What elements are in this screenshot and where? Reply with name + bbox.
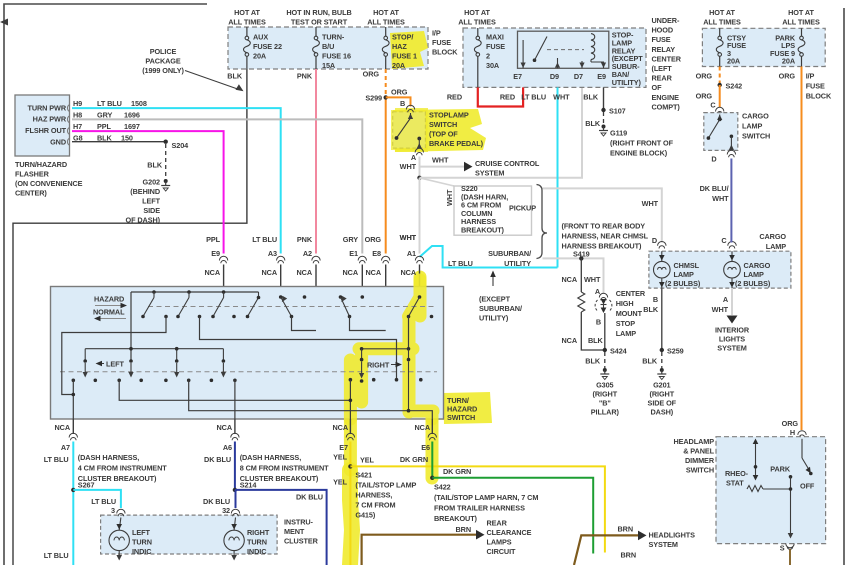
label CARGO LAMP (outside box) bbox=[759, 232, 786, 251]
wire NCA with resistor below S419 bbox=[561, 258, 604, 350]
svg-text:B: B bbox=[653, 295, 658, 304]
svg-text:SYSTEM: SYSTEM bbox=[475, 169, 504, 178]
svg-text:30A: 30A bbox=[486, 61, 500, 70]
wire YEL E7 to S421 and down bbox=[333, 442, 350, 565]
svg-text:ENGINE: ENGINE bbox=[652, 93, 680, 102]
contact fed by A3 bbox=[279, 295, 293, 318]
svg-text:REAR: REAR bbox=[652, 74, 673, 83]
svg-text:(DASH HARNESS,: (DASH HARNESS, bbox=[240, 453, 302, 462]
svg-text:HOT IN RUN, BULB: HOT IN RUN, BULB bbox=[286, 8, 351, 17]
svg-text:ORG: ORG bbox=[782, 419, 799, 428]
right rail (brake feed, highlighted) bbox=[359, 347, 410, 413]
svg-text:LT BLU: LT BLU bbox=[91, 497, 116, 506]
fuse STOP/HAZ FUSE 1 20A (highlighted) bbox=[382, 27, 417, 70]
connector A7 bbox=[54, 419, 77, 452]
connector E6 bbox=[414, 419, 436, 452]
fuse MAXI FUSE 2 30A bbox=[474, 28, 505, 87]
fuse CTSY FUSE 3 20A bbox=[716, 28, 746, 66]
connector at A bbox=[400, 148, 424, 171]
highlight over turn/hazard switch label bbox=[443, 392, 492, 424]
svg-text:RELAY: RELAY bbox=[652, 45, 676, 54]
svg-text:BLK: BLK bbox=[585, 357, 601, 366]
svg-text:CARGO: CARGO bbox=[759, 232, 786, 241]
svg-text:HEADLAMP: HEADLAMP bbox=[673, 437, 714, 446]
connector D bbox=[658, 242, 666, 249]
wire brake contact down to right rail bbox=[408, 317, 410, 349]
svg-text:SYSTEM: SYSTEM bbox=[649, 540, 678, 549]
wire ORG S242 to cargo lamp switch C bbox=[696, 85, 720, 110]
svg-text:HOT AT: HOT AT bbox=[788, 8, 814, 17]
svg-text:I/P: I/P bbox=[432, 29, 441, 38]
wire BLK dashed S107 to G119 bbox=[585, 112, 603, 128]
svg-text:SWITCH: SWITCH bbox=[447, 413, 475, 422]
svg-text:UTILITY): UTILITY) bbox=[479, 314, 509, 323]
label RIGHT with arrow bbox=[367, 361, 402, 370]
wire BLK from AUX fuse down and left to page edge bbox=[13, 69, 247, 565]
svg-text:BRN: BRN bbox=[455, 525, 471, 534]
svg-text:ALL TIMES: ALL TIMES bbox=[367, 18, 405, 27]
wire DK BLU 32 to right turn indicator bbox=[203, 490, 235, 515]
svg-text:S421: S421 bbox=[355, 471, 372, 480]
svg-text:PPL: PPL bbox=[97, 122, 112, 131]
wire WHT to cruise control bbox=[420, 156, 540, 178]
svg-text:OF: OF bbox=[652, 83, 663, 92]
svg-text:BRN: BRN bbox=[620, 551, 636, 560]
contact fed by A1 (brake, highlighted) bbox=[407, 295, 434, 318]
svg-text:ORG: ORG bbox=[365, 235, 382, 244]
svg-text:ORG: ORG bbox=[696, 72, 713, 81]
label (DASH HARNESS, 8 CM FROM INSTRUMENT CLUSTER BREAKOUT) S214 bbox=[240, 453, 329, 490]
svg-text:S214: S214 bbox=[240, 481, 258, 490]
svg-text:BLK: BLK bbox=[643, 305, 659, 314]
svg-text:UTILITY): UTILITY) bbox=[612, 78, 642, 87]
svg-text:(TOP OF: (TOP OF bbox=[429, 130, 458, 139]
svg-text:YEL: YEL bbox=[333, 453, 348, 462]
svg-text:ALL TIMES: ALL TIMES bbox=[458, 18, 496, 27]
svg-text:G119: G119 bbox=[610, 129, 627, 138]
wire E7 exit bbox=[349, 380, 353, 419]
svg-text:D: D bbox=[652, 236, 657, 245]
connector A3 (LT BLU) bbox=[252, 235, 285, 297]
ground G305 bbox=[591, 368, 620, 417]
svg-text:32: 32 bbox=[222, 506, 230, 515]
wire ORG from STOP/HAZ fuse: dashed to S299 then solid to E8 bbox=[363, 69, 386, 254]
svg-text:S107: S107 bbox=[609, 107, 626, 116]
connector E9 (PPL) bbox=[204, 235, 227, 292]
center high mount stop lamp bulb bbox=[588, 299, 612, 350]
svg-text:DK BLU: DK BLU bbox=[203, 497, 230, 506]
label HEADLAMP & PANEL DIMMER SWITCH bbox=[673, 437, 714, 475]
svg-text:3: 3 bbox=[111, 506, 115, 515]
svg-text:UTILITY: UTILITY bbox=[504, 259, 531, 268]
svg-text:DK BLU: DK BLU bbox=[296, 493, 323, 502]
wire BRN to rear clearance lamps circuit bbox=[362, 519, 532, 565]
right turn indicator bulb bbox=[224, 518, 270, 561]
svg-text:LT BLU: LT BLU bbox=[252, 235, 277, 244]
svg-text:C: C bbox=[710, 101, 716, 110]
label LEFT with arrow bbox=[96, 360, 125, 369]
svg-text:20A: 20A bbox=[727, 57, 741, 66]
wire A2 to contact bbox=[292, 317, 317, 331]
svg-text:HOT AT: HOT AT bbox=[709, 8, 735, 17]
wire WHT diagonal to S220 callout bbox=[420, 178, 455, 206]
label SUBURBAN/UTILITY bbox=[488, 249, 531, 268]
svg-text:ORG: ORG bbox=[696, 92, 713, 101]
svg-text:LEFT: LEFT bbox=[142, 197, 160, 206]
svg-text:LAMPS: LAMPS bbox=[487, 538, 512, 547]
svg-text:FUSE 22: FUSE 22 bbox=[253, 42, 282, 51]
svg-text:(BEHIND: (BEHIND bbox=[130, 187, 160, 196]
svg-text:CARGO: CARGO bbox=[742, 112, 769, 121]
label HAZARD / NORMAL with arrows bbox=[93, 295, 127, 322]
svg-text:I/P: I/P bbox=[806, 72, 815, 81]
svg-text:B: B bbox=[596, 318, 601, 327]
wire ORG park lps fuse down right side to dimmer H bbox=[779, 67, 802, 431]
wire A7 feed bbox=[72, 380, 76, 419]
connector A2 (PNK) bbox=[296, 235, 320, 331]
hazard contacts on bus bbox=[141, 290, 260, 318]
svg-text:NCA: NCA bbox=[400, 268, 416, 277]
node WHT junction bbox=[417, 176, 421, 180]
svg-text:WHT: WHT bbox=[712, 305, 729, 314]
svg-text:E8: E8 bbox=[372, 249, 381, 258]
svg-text:BLK: BLK bbox=[642, 357, 658, 366]
wire A6 feed bbox=[234, 380, 236, 419]
svg-text:NCA: NCA bbox=[261, 268, 277, 277]
stationary dot bbox=[303, 295, 307, 299]
svg-text:H7: H7 bbox=[73, 122, 82, 131]
svg-text:E1: E1 bbox=[349, 249, 358, 258]
svg-text:BLOCK: BLOCK bbox=[432, 48, 458, 57]
svg-text:HOT AT: HOT AT bbox=[373, 8, 399, 17]
svg-text:HEADLIGHTS: HEADLIGHTS bbox=[649, 531, 696, 540]
header HOT IN RUN, BULB TEST OR START bbox=[286, 8, 351, 27]
cargo lamp switch box bbox=[704, 113, 738, 151]
svg-text:E7: E7 bbox=[513, 72, 522, 81]
node S204 bbox=[164, 140, 190, 151]
svg-text:NCA: NCA bbox=[54, 423, 70, 432]
svg-text:HOOD: HOOD bbox=[652, 26, 674, 35]
contact mid-right bbox=[339, 295, 352, 318]
svg-text:S422: S422 bbox=[434, 483, 451, 492]
label POLICE PACKAGE (1999 ONLY) with arrow bbox=[142, 47, 243, 91]
wire E7 feed bus bbox=[119, 380, 350, 400]
svg-text:DK BLU/: DK BLU/ bbox=[700, 184, 729, 193]
svg-text:(DASH HARNESS,: (DASH HARNESS, bbox=[78, 453, 140, 462]
wire DK BLU branch right from S214 bbox=[235, 490, 327, 565]
svg-text:ALL TIMES: ALL TIMES bbox=[782, 18, 820, 27]
node S259 bbox=[660, 347, 684, 356]
svg-text:FLSHR OUT: FLSHR OUT bbox=[25, 126, 66, 135]
svg-text:H8: H8 bbox=[73, 111, 82, 120]
S220 callout box bbox=[454, 184, 532, 235]
svg-text:STOP/: STOP/ bbox=[392, 33, 413, 42]
node S214 bbox=[233, 488, 237, 492]
svg-text:FUSE 16: FUSE 16 bbox=[322, 52, 351, 61]
wire DK BLU/WHT to cargo lamp C bbox=[700, 159, 732, 243]
node S421 bbox=[348, 464, 352, 468]
svg-text:S242: S242 bbox=[726, 82, 743, 91]
header HOT AT ALL TIMES (stop/haz fuse) bbox=[367, 8, 405, 27]
wire E6 feed bus bbox=[189, 380, 433, 419]
svg-text:20A: 20A bbox=[253, 52, 267, 61]
ground G201 bbox=[648, 368, 677, 417]
svg-text:LT BLU: LT BLU bbox=[44, 455, 69, 464]
svg-text:(RIGHT: (RIGHT bbox=[650, 390, 675, 399]
connector S at bottom bbox=[780, 544, 794, 565]
turn/hazard flasher box bbox=[15, 95, 70, 156]
wire LT BLU 3 to left turn indicator bbox=[73, 490, 121, 515]
svg-text:TURN/HAZARD: TURN/HAZARD bbox=[15, 160, 67, 169]
svg-text:SWITCH: SWITCH bbox=[742, 132, 770, 141]
svg-text:BREAKOUT): BREAKOUT) bbox=[434, 514, 478, 523]
svg-text:COMPT): COMPT) bbox=[652, 102, 681, 111]
svg-text:INDIC: INDIC bbox=[247, 547, 267, 556]
svg-text:INTERIOR: INTERIOR bbox=[715, 326, 750, 335]
svg-text:FROM TRAILER HARNESS: FROM TRAILER HARNESS bbox=[434, 504, 525, 513]
wire BLK from relay E9 to S107 bbox=[583, 87, 625, 115]
svg-text:G202: G202 bbox=[143, 178, 160, 187]
svg-text:WHT: WHT bbox=[553, 93, 570, 102]
relay U1 (stop-lamp relay) inner box bbox=[513, 31, 609, 81]
svg-text:4 CM FROM INSTRUMENT: 4 CM FROM INSTRUMENT bbox=[78, 464, 167, 473]
label H / connector H bbox=[790, 428, 806, 438]
svg-text:20A: 20A bbox=[782, 57, 796, 66]
left row fixed contact dots bbox=[72, 379, 237, 383]
svg-text:FUSE: FUSE bbox=[652, 35, 671, 44]
left row rail bbox=[83, 347, 225, 363]
left turn indicator bulb bbox=[109, 518, 152, 561]
instrument cluster dashed box bbox=[101, 515, 278, 554]
fuse TURN-B/U FUSE 16 15A bbox=[313, 27, 351, 70]
svg-text:SIDE: SIDE bbox=[143, 206, 160, 215]
svg-text:GRY: GRY bbox=[97, 111, 112, 120]
svg-text:DK GRN: DK GRN bbox=[400, 455, 428, 464]
dashed left/right row line bbox=[60, 371, 437, 373]
svg-text:S267: S267 bbox=[78, 481, 95, 490]
label WHT / connector A of CHMSL lamp bbox=[584, 275, 608, 300]
svg-text:LEFT: LEFT bbox=[106, 360, 124, 369]
svg-text:BLK: BLK bbox=[147, 161, 163, 170]
label UNDERHOOD FUSE RELAY CENTER (LEFT REAR OF ENGINE COMPT) bbox=[652, 16, 682, 111]
label INSTRUMENT CLUSTER bbox=[284, 518, 319, 546]
ground G119 bbox=[599, 125, 674, 158]
svg-text:OFF: OFF bbox=[800, 482, 815, 491]
svg-text:SWITCH: SWITCH bbox=[429, 120, 457, 129]
label (DASH HARNESS, 4 CM FROM INSTRUMENT CLUSTER BREAKOUT) S267 bbox=[78, 453, 167, 490]
svg-text:HARNESS,: HARNESS, bbox=[355, 491, 392, 500]
connector A1 (WHT) bbox=[400, 233, 424, 297]
connector E1 (GRY) bbox=[342, 235, 366, 297]
label TURN/HAZARD FLASHER (ON CONVENIENCE CENTER) bbox=[15, 160, 83, 198]
fuse PARK LPS FUSE 9 20A bbox=[770, 28, 805, 66]
svg-text:(RIGHT: (RIGHT bbox=[593, 390, 618, 399]
svg-text:BRAKE PEDAL): BRAKE PEDAL) bbox=[429, 139, 484, 148]
svg-text:BLK: BLK bbox=[588, 336, 604, 345]
svg-text:RIGHT: RIGHT bbox=[247, 528, 270, 537]
wire from hazard stationary contact to A7 branch bbox=[62, 317, 166, 395]
svg-text:BRN: BRN bbox=[617, 525, 633, 534]
svg-text:PNK: PNK bbox=[297, 235, 313, 244]
svg-text:FUSE: FUSE bbox=[806, 82, 825, 91]
svg-text:BLK: BLK bbox=[227, 72, 243, 81]
svg-text:SUBURBAN/: SUBURBAN/ bbox=[479, 304, 522, 313]
right I/P fuse block dashed box bbox=[702, 28, 825, 66]
svg-text:STOPLAMP: STOPLAMP bbox=[429, 111, 469, 120]
svg-text:ORG: ORG bbox=[363, 70, 380, 79]
svg-text:BLOCK: BLOCK bbox=[806, 92, 832, 101]
svg-text:NCA: NCA bbox=[296, 268, 312, 277]
svg-text:E9: E9 bbox=[211, 249, 220, 258]
svg-text:15A: 15A bbox=[322, 61, 336, 70]
svg-text:REAR: REAR bbox=[487, 519, 508, 528]
svg-text:LT BLU: LT BLU bbox=[448, 259, 473, 268]
stoplamp switch contacts bbox=[395, 113, 422, 149]
turn/hazard switch box bbox=[51, 287, 444, 420]
wire ORG ctsy fuse dashed to S242 bbox=[696, 67, 720, 86]
svg-text:B/U: B/U bbox=[322, 42, 334, 51]
svg-text:"B": "B" bbox=[599, 399, 611, 408]
svg-text:WHT: WHT bbox=[642, 199, 659, 208]
svg-text:MAXI: MAXI bbox=[486, 33, 504, 42]
svg-text:WHT: WHT bbox=[584, 275, 601, 284]
svg-text:(2 BULBS): (2 BULBS) bbox=[665, 279, 701, 288]
svg-text:H9: H9 bbox=[73, 99, 82, 108]
svg-text:A1: A1 bbox=[407, 249, 416, 258]
label CENTER HIGH MOUNT STOP LAMP bbox=[616, 289, 646, 338]
highlight path: A1 wire down through switch to E7/E6 bbox=[350, 277, 433, 478]
node S299 bbox=[365, 94, 388, 103]
svg-text:PNK: PNK bbox=[297, 72, 313, 81]
wire LT BLU A7 to S267 and down bbox=[44, 442, 74, 565]
node fed by E1 bbox=[361, 295, 365, 299]
svg-text:H: H bbox=[790, 428, 795, 437]
svg-text:LT BLU: LT BLU bbox=[521, 93, 546, 102]
pin H8 / wire GRY 1696 to E1 bbox=[72, 111, 362, 254]
svg-text:D: D bbox=[711, 155, 716, 164]
node S424 bbox=[603, 347, 628, 356]
svg-text:FUSE: FUSE bbox=[486, 42, 505, 51]
svg-text:POLICE: POLICE bbox=[150, 47, 177, 56]
svg-text:(TAIL/STOP LAMP: (TAIL/STOP LAMP bbox=[355, 481, 416, 490]
svg-text:G305: G305 bbox=[596, 381, 613, 390]
ground G202 bbox=[126, 178, 171, 225]
svg-text:E7: E7 bbox=[339, 443, 348, 452]
svg-text:CARGO: CARGO bbox=[744, 261, 771, 270]
wire E8 to contact bbox=[350, 317, 386, 331]
hazard row bus fed by E9 bbox=[131, 292, 259, 361]
arrow + label (EXCEPT SUBURBAN/UTILITY) bbox=[479, 271, 522, 323]
wire WHT pickup branch from brace to chmsl D bbox=[543, 188, 662, 242]
pin G8 / wire BLK 150 to S204 bbox=[72, 134, 166, 143]
svg-text:LT BLU: LT BLU bbox=[97, 99, 122, 108]
label TURN/HAZARD SWITCH bbox=[447, 396, 477, 422]
wire YEL S421 to right then down bbox=[350, 456, 605, 553]
connector 32 bbox=[231, 509, 239, 516]
svg-text:B: B bbox=[400, 99, 405, 108]
svg-text:BLK: BLK bbox=[585, 119, 601, 128]
svg-text:LAMP: LAMP bbox=[742, 122, 763, 131]
svg-text:C: C bbox=[721, 236, 727, 245]
svg-text:NCA: NCA bbox=[342, 268, 358, 277]
fuse block I/P (dashed box) bbox=[228, 27, 428, 69]
svg-text:D9: D9 bbox=[550, 72, 559, 81]
svg-text:LT BLU: LT BLU bbox=[44, 551, 69, 560]
svg-text:UNDER-: UNDER- bbox=[652, 16, 680, 25]
svg-text:MOUNT: MOUNT bbox=[616, 309, 643, 318]
svg-text:ALL TIMES: ALL TIMES bbox=[703, 18, 741, 27]
svg-text:WHT: WHT bbox=[432, 156, 449, 165]
node S419 bbox=[579, 256, 583, 260]
svg-text:CLUSTER: CLUSTER bbox=[284, 537, 319, 546]
svg-text:STAT: STAT bbox=[726, 479, 744, 488]
svg-text:A: A bbox=[411, 153, 417, 162]
wire BRN to headlights system bbox=[574, 525, 695, 565]
svg-text:D7: D7 bbox=[574, 72, 583, 81]
svg-text:FLASHER: FLASHER bbox=[15, 170, 50, 179]
svg-text:CRUISE CONTROL: CRUISE CONTROL bbox=[475, 159, 540, 168]
svg-text:RED: RED bbox=[500, 93, 515, 102]
wire DK BLU A6 to S214 bbox=[204, 442, 235, 490]
wire PNK from TURN-B/U fuse down to A2 bbox=[297, 69, 316, 254]
svg-text:HAZ PWR: HAZ PWR bbox=[33, 115, 67, 124]
svg-text:RIGHT: RIGHT bbox=[367, 361, 390, 370]
wire BLK dashed S259 to G201 bbox=[642, 352, 662, 368]
brace (pickup / suburban-utility group) bbox=[537, 185, 548, 259]
svg-text:PPL: PPL bbox=[206, 235, 221, 244]
label I/P FUSE BLOCK (right) bbox=[806, 72, 832, 101]
svg-text:HOT AT: HOT AT bbox=[464, 8, 490, 17]
svg-text:NCA: NCA bbox=[561, 336, 577, 345]
connector C of cargo lamp switch bbox=[716, 107, 724, 114]
label S421 (TAIL/STOP LAMP HARNESS, 7 CM FROM G415) bbox=[355, 471, 416, 520]
svg-text:& PANEL: & PANEL bbox=[683, 447, 714, 456]
svg-text:DIMMER: DIMMER bbox=[685, 456, 715, 465]
label CARGO LAMP SWITCH bbox=[742, 112, 770, 141]
svg-text:STOP: STOP bbox=[616, 319, 636, 328]
svg-text:NCA: NCA bbox=[561, 275, 577, 284]
underhood fuse/relay center dashed box bbox=[463, 28, 646, 87]
svg-text:SYSTEM: SYSTEM bbox=[717, 344, 746, 353]
wire BLK dashed S424 to G305 bbox=[585, 352, 605, 368]
svg-text:ENGINE BLOCK): ENGINE BLOCK) bbox=[610, 149, 668, 158]
svg-text:A7: A7 bbox=[61, 443, 70, 452]
svg-text:OF DASH): OF DASH) bbox=[126, 216, 161, 225]
svg-text:HIGH: HIGH bbox=[616, 299, 634, 308]
svg-text:SUBURBAN/: SUBURBAN/ bbox=[488, 249, 531, 258]
svg-text:AUX: AUX bbox=[253, 33, 268, 42]
svg-text:NCA: NCA bbox=[204, 268, 220, 277]
stoplamp switch box bbox=[391, 110, 427, 150]
svg-text:ALL TIMES: ALL TIMES bbox=[228, 18, 266, 27]
node S267 bbox=[71, 488, 75, 492]
svg-text:(TAIL/STOP LAMP HARN, 7 CM: (TAIL/STOP LAMP HARN, 7 CM bbox=[434, 493, 538, 502]
dimmer switch dashed box bbox=[716, 437, 826, 544]
svg-text:E6: E6 bbox=[421, 443, 430, 452]
svg-text:TURN-: TURN- bbox=[322, 33, 345, 42]
svg-text:2: 2 bbox=[486, 52, 490, 61]
svg-text:TURN: TURN bbox=[247, 538, 267, 547]
svg-text:LAMP: LAMP bbox=[674, 270, 695, 279]
svg-text:1508: 1508 bbox=[131, 99, 147, 108]
park contact bbox=[770, 465, 793, 539]
right row fixed contact dots bbox=[349, 378, 423, 382]
svg-text:PARK: PARK bbox=[770, 465, 791, 474]
svg-text:WHT: WHT bbox=[400, 162, 417, 171]
svg-text:MENT: MENT bbox=[284, 527, 305, 536]
highlighter marks layer bbox=[350, 31, 492, 565]
svg-text:LAMP: LAMP bbox=[744, 270, 765, 279]
